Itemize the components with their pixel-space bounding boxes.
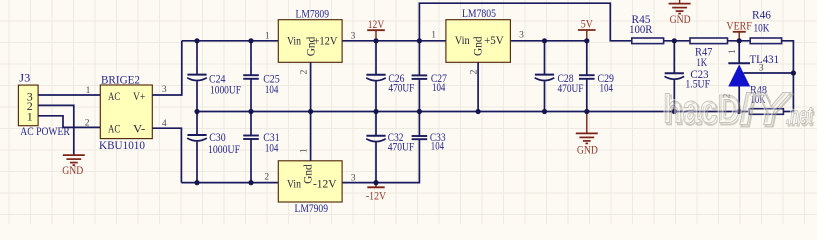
svg-text:12V: 12V bbox=[368, 17, 385, 31]
svg-text:100R: 100R bbox=[629, 22, 652, 36]
junction dots bottom rail bbox=[194, 180, 199, 185]
svg-text:104: 104 bbox=[600, 81, 614, 95]
capacitor C29 104 bbox=[579, 41, 614, 112]
svg-text:V+: V+ bbox=[133, 89, 145, 103]
capacitor C23 1.5UF bbox=[665, 41, 711, 112]
svg-text:1: 1 bbox=[27, 109, 33, 123]
regulator U LM7809 bbox=[278, 7, 342, 63]
svg-text:-12V: -12V bbox=[313, 176, 337, 190]
svg-text:GND: GND bbox=[577, 143, 598, 157]
svg-text:1: 1 bbox=[728, 49, 738, 54]
svg-text:2: 2 bbox=[300, 69, 310, 74]
svg-text:104: 104 bbox=[431, 139, 444, 153]
svg-text:LM7809: LM7809 bbox=[296, 7, 330, 21]
wire LM7805 gnd pin bbox=[477, 62, 479, 111]
wire R48 right lead bbox=[783, 111, 793, 113]
svg-text:BRIGE2: BRIGE2 bbox=[101, 73, 140, 87]
svg-text:1: 1 bbox=[86, 86, 91, 96]
wire bottom rail: bridge to LM7909 bbox=[181, 182, 278, 184]
resistor R48 10K bbox=[749, 83, 783, 115]
wire 5V rail: LM7805 out to C29 bbox=[510, 40, 586, 42]
regulator U LM7909 bbox=[278, 161, 342, 215]
svg-text:104: 104 bbox=[265, 141, 279, 155]
svg-text:3: 3 bbox=[519, 31, 524, 41]
svg-text:2: 2 bbox=[264, 172, 269, 182]
svg-text:1: 1 bbox=[300, 148, 310, 153]
watermark hacDIY.net bbox=[662, 82, 814, 137]
power flag -12V bbox=[366, 183, 386, 203]
svg-text:+12V: +12V bbox=[314, 33, 338, 47]
wire J3 pin3 to bridge AC1 bbox=[38, 94, 100, 96]
bridge rectifier BRIGE2 KBU1010 bbox=[99, 73, 152, 153]
svg-text:5V: 5V bbox=[581, 17, 593, 31]
svg-text:Gnd: Gnd bbox=[471, 36, 485, 56]
wire J3 pin1 to bridge AC2 bbox=[38, 116, 100, 128]
resistor R47 1K bbox=[690, 38, 728, 69]
svg-text:AC: AC bbox=[108, 121, 120, 135]
wire top rail: bridge to LM7809 bbox=[182, 40, 278, 42]
resistor R46 10K bbox=[750, 7, 781, 43]
wire top rail: LM7809 out to LM7805 in bbox=[342, 40, 446, 42]
svg-text:Vin: Vin bbox=[455, 33, 470, 47]
svg-text:470UF: 470UF bbox=[388, 81, 414, 95]
junction dots top rail bbox=[194, 38, 199, 43]
svg-text:Vin: Vin bbox=[287, 176, 301, 190]
svg-text:1000UF: 1000UF bbox=[208, 142, 240, 156]
svg-text:1: 1 bbox=[265, 32, 270, 42]
connector J3 bbox=[18, 71, 69, 139]
wire -12V rail: LM7909 out to C33 bbox=[342, 139, 419, 182]
wire bridge V- down to bottom rail bbox=[152, 128, 181, 182]
svg-text:104: 104 bbox=[265, 82, 279, 96]
svg-text:J3: J3 bbox=[19, 71, 30, 85]
junction dots ground rail bbox=[194, 109, 199, 114]
power flag 5V bbox=[578, 17, 596, 41]
wire LM7909 gnd pin bbox=[310, 112, 312, 161]
capacitor C31 104 bbox=[243, 112, 280, 183]
svg-text:hacD: hacD bbox=[663, 88, 740, 132]
regulator U LM7805 bbox=[446, 6, 511, 62]
svg-text:R46: R46 bbox=[752, 7, 771, 21]
resistor R45 100R bbox=[629, 12, 664, 43]
svg-text:3: 3 bbox=[351, 32, 356, 42]
svg-text:470UF: 470UF bbox=[388, 139, 415, 153]
wire 12V bypass to R45 bbox=[419, 3, 631, 41]
svg-text:2: 2 bbox=[85, 118, 90, 128]
wire TL431 ref pin to divider bbox=[744, 72, 794, 74]
svg-text:LM7805: LM7805 bbox=[462, 6, 496, 20]
svg-text:IY: IY bbox=[739, 83, 792, 135]
ground symbol at J3 bbox=[62, 155, 85, 177]
wire LM7809 gnd pin bbox=[310, 62, 312, 111]
capacitor C27 104 bbox=[412, 41, 447, 112]
svg-text:3: 3 bbox=[162, 85, 167, 95]
capacitor C24 1000UF bbox=[187, 41, 241, 112]
svg-text:3: 3 bbox=[351, 173, 356, 183]
capacitor C28 470UF bbox=[535, 41, 584, 112]
svg-text:V-: V- bbox=[133, 121, 145, 135]
capacitor C26 470UF bbox=[366, 41, 414, 112]
junction dot REF node bbox=[791, 70, 796, 75]
svg-text:10K: 10K bbox=[754, 21, 770, 35]
svg-text:AC: AC bbox=[108, 89, 120, 103]
ground symbol mid (at C29) bbox=[576, 112, 598, 157]
wire ground rail bbox=[197, 111, 749, 113]
svg-text:VERF: VERF bbox=[726, 19, 752, 33]
capacitor C30 1000UF bbox=[187, 112, 240, 183]
wire R47 to R46 through VERF node bbox=[728, 40, 751, 42]
ground symbol top right bbox=[669, 0, 691, 26]
shunt regulator TL431 bbox=[728, 41, 779, 112]
svg-text:1: 1 bbox=[431, 31, 436, 41]
svg-text:GND: GND bbox=[670, 12, 691, 26]
svg-text:470UF: 470UF bbox=[558, 81, 584, 95]
wire J3 pin2 to ground bbox=[38, 105, 74, 155]
wire R45 to R47 bbox=[664, 40, 690, 42]
capacitor C33 104 bbox=[412, 112, 446, 153]
svg-text:KBU1010: KBU1010 bbox=[99, 138, 145, 152]
svg-text:Vin: Vin bbox=[287, 33, 301, 47]
power flag 12V bbox=[367, 17, 385, 41]
capacitor C32 470UF bbox=[366, 112, 414, 183]
capacitor C25 104 bbox=[243, 41, 280, 112]
svg-text:+5V: +5V bbox=[484, 33, 504, 47]
svg-text:104: 104 bbox=[432, 80, 445, 94]
svg-text:TL431: TL431 bbox=[750, 52, 780, 66]
svg-text:1000UF: 1000UF bbox=[210, 82, 241, 96]
wire R46 right to REF vertical bbox=[782, 41, 794, 112]
svg-text:.net: .net bbox=[786, 103, 813, 130]
svg-text:GND: GND bbox=[62, 163, 83, 177]
power flag VERF bbox=[726, 19, 752, 41]
svg-text:-12V: -12V bbox=[366, 188, 386, 202]
wire bridge V+ up to top rail bbox=[152, 41, 182, 95]
svg-text:LM7909: LM7909 bbox=[295, 201, 329, 215]
